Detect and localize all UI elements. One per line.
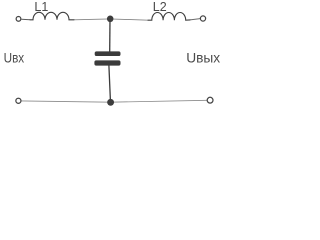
terminal circle bottom-right (207, 97, 213, 103)
capacitor plate top (95, 51, 121, 56)
wire capacitor to bottom junction (109, 65, 111, 100)
wire top junction to L2 (110, 19, 148, 20)
terminal circle top-right (200, 16, 205, 21)
svg-text:L1: L1 (34, 0, 48, 14)
wire bottom-left terminal to bottom junction (21, 101, 110, 102)
wire top-left terminal to L1 (21, 18, 30, 21)
wire L1 to top junction (74, 18, 110, 21)
wire L2 to top-right terminal (190, 19, 200, 20)
inductor L2 (148, 12, 190, 20)
junction dot bottom (107, 99, 114, 106)
wire top junction down to capacitor (109, 20, 111, 52)
svg-text:Uвх: Uвх (4, 50, 25, 66)
junction dot top (107, 15, 114, 22)
terminal circle bottom-left (16, 98, 21, 103)
svg-text:Uвых: Uвых (186, 50, 220, 66)
terminal circle top-left (16, 17, 21, 22)
wire bottom junction to bottom-right terminal (111, 100, 208, 102)
svg-text:L2: L2 (153, 0, 167, 14)
capacitor plate bottom (94, 60, 120, 65)
inductor L1 (30, 12, 74, 19)
